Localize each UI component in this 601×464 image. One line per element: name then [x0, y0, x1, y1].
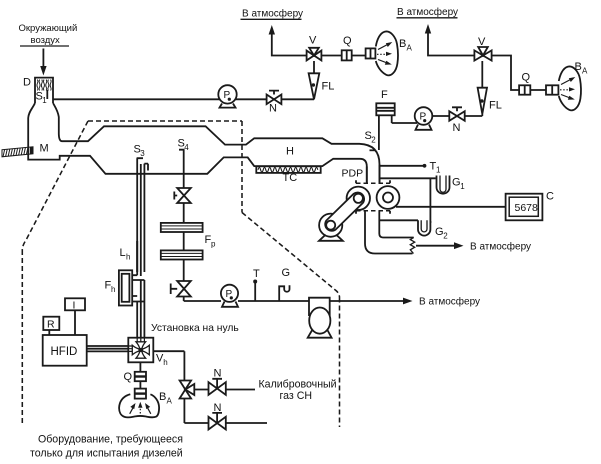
svg-text:R: R	[47, 319, 55, 331]
svg-text:PDP: PDP	[342, 168, 364, 180]
svg-text:P: P	[226, 289, 233, 300]
svg-text:A: A	[407, 44, 413, 53]
svg-text:2: 2	[371, 135, 376, 144]
svg-text:N: N	[214, 402, 222, 414]
svg-text:Q: Q	[124, 371, 133, 383]
svg-text:Q: Q	[522, 72, 531, 84]
svg-text:Калибровочный: Калибровочный	[259, 379, 337, 391]
svg-text:Окружающий: Окружающий	[19, 23, 78, 34]
svg-text:L: L	[120, 247, 126, 259]
svg-text:B: B	[399, 38, 406, 50]
svg-text:G: G	[452, 177, 461, 189]
svg-text:Q: Q	[343, 35, 352, 47]
svg-text:P: P	[420, 112, 427, 123]
svg-text:1: 1	[42, 96, 47, 105]
svg-text:3: 3	[140, 149, 145, 158]
svg-text:V: V	[309, 35, 317, 47]
svg-text:H: H	[286, 146, 294, 158]
svg-text:Оборудование, требующееся: Оборудование, требующееся	[38, 434, 183, 446]
svg-text:P: P	[224, 90, 231, 101]
svg-text:p: p	[211, 239, 216, 248]
svg-text:B: B	[159, 391, 166, 403]
svg-text:G: G	[435, 226, 444, 238]
svg-text:воздух: воздух	[31, 35, 61, 46]
svg-text:N: N	[269, 103, 277, 115]
svg-text:D: D	[23, 77, 31, 89]
svg-text:I: I	[73, 300, 76, 312]
svg-text:h: h	[126, 252, 130, 261]
svg-text:G: G	[282, 267, 291, 279]
svg-text:N: N	[214, 368, 222, 380]
svg-text:h: h	[163, 358, 167, 367]
svg-text:N: N	[453, 122, 461, 134]
svg-text:A: A	[167, 397, 173, 406]
svg-text:4: 4	[184, 143, 189, 152]
svg-text:В атмосферу: В атмосферу	[419, 296, 480, 308]
svg-text:В атмосферу: В атмосферу	[242, 8, 303, 20]
svg-text:1: 1	[460, 182, 465, 191]
svg-text:C: C	[546, 191, 554, 203]
svg-text:В атмосферу: В атмосферу	[470, 241, 531, 253]
svg-text:HFID: HFID	[51, 346, 78, 358]
svg-text:V: V	[478, 36, 486, 48]
svg-text:только для испытания дизелей: только для испытания дизелей	[30, 448, 183, 460]
svg-text:F: F	[381, 89, 388, 101]
svg-text:B: B	[575, 61, 582, 73]
svg-text:T: T	[253, 268, 260, 280]
svg-text:Установка на нуль: Установка на нуль	[151, 323, 239, 334]
svg-text:A: A	[582, 67, 588, 76]
svg-text:M: M	[40, 143, 49, 155]
svg-text:газ СН: газ СН	[280, 390, 313, 402]
svg-text:5678: 5678	[515, 202, 539, 214]
svg-text:FL: FL	[489, 100, 502, 112]
svg-text:TC: TC	[283, 172, 298, 184]
svg-text:1: 1	[436, 166, 441, 175]
svg-text:В атмосферу: В атмосферу	[397, 6, 458, 18]
svg-text:2: 2	[443, 231, 448, 240]
svg-text:FL: FL	[322, 81, 335, 93]
svg-text:h: h	[111, 285, 115, 294]
